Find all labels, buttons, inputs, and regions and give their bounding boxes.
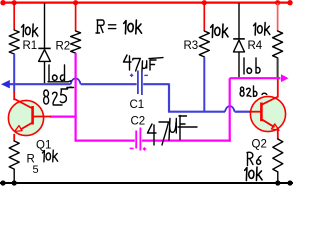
resistor R6 (Q2 emitter to ground) xyxy=(273,139,283,172)
wire: VCC top rail (red) xyxy=(2,1,291,3)
wire: red drop from rail to R3 xyxy=(203,3,205,31)
handwritten tilde mark above Q2 xyxy=(262,93,267,94)
wire: blue lead R1 bottom down through node to Q1 collector xyxy=(13,54,15,93)
svg-text:R2: R2 xyxy=(56,41,71,53)
handwritten value 10k beside R5 xyxy=(42,150,57,162)
node dot: ground left terminal xyxy=(0,180,5,185)
resistor R4 xyxy=(273,31,283,58)
handwritten value 10k beside R1 xyxy=(22,24,38,37)
handwritten diode label Lod (D1) xyxy=(48,65,74,88)
wire: red drop from rail to R1 xyxy=(13,3,15,30)
svg-text:R3: R3 xyxy=(184,40,199,52)
wire: ground rail (bottom, black) xyxy=(0,182,293,184)
svg-text:5: 5 xyxy=(33,164,39,176)
wire: blue horizontal net (Q1 collector node) with hop over magenta xyxy=(7,78,137,84)
handwritten label R6 xyxy=(247,152,261,165)
svg-text:C1: C1 xyxy=(130,99,145,111)
diode D2 (right, from rail to Q2 collector node) xyxy=(233,3,245,77)
resistor R5 (Q1 emitter to ground) xyxy=(9,141,19,169)
handwritten value 10k beside R4 xyxy=(254,23,270,36)
handwritten equation R = 10k xyxy=(96,20,142,34)
svg-text:Q2: Q2 xyxy=(252,139,267,151)
node dot: rail junction above R1 xyxy=(12,0,17,5)
wire: blue vertical corner down to Q2 base net xyxy=(168,83,170,111)
node dot: rail junction above R3 xyxy=(202,0,207,5)
node dot: top-right terminal xyxy=(287,0,292,5)
wire: black lead R4 bottom to output node xyxy=(277,58,279,77)
handwritten value 10k beside R6 xyxy=(245,167,262,180)
wire: R6 bottom lead xyxy=(277,172,279,183)
label R5 (R with subscript 5) xyxy=(27,154,39,177)
arrow: blue left-pointing probe arrow xyxy=(1,80,10,88)
resistor R2 xyxy=(71,31,81,53)
handwritten value 10k beside R3 xyxy=(211,24,228,37)
resistor R1 xyxy=(9,30,19,54)
wire: red Q2 collector lead from output node xyxy=(277,79,279,98)
node dot: ground right terminal xyxy=(287,180,292,185)
wire: magenta vertical R2 bottom down (Q1 base node) xyxy=(74,53,76,141)
node dot: ground junction R6 xyxy=(275,180,280,185)
transistor Q2 (NPN mirrored, red on green) xyxy=(249,96,286,139)
wire: blue from C1 right plate to corner xyxy=(143,83,169,85)
node dot: rail junction above R4 xyxy=(275,0,280,5)
wire: R5 bottom lead xyxy=(13,169,15,183)
handwritten number 82b near Q2 xyxy=(240,86,257,97)
handwritten number 825 near Q1 xyxy=(44,87,71,105)
transistor Q1 (NPN, red on green) xyxy=(8,92,51,142)
wire: blue lead R3 bottom to base net xyxy=(203,57,205,111)
resistor R3 xyxy=(199,31,209,57)
wire: red drop from rail to R4 xyxy=(277,3,279,31)
arrow: magenta right-pointing output arrow xyxy=(281,74,289,82)
svg-text:R1: R1 xyxy=(23,40,38,52)
diode D1 (left, from rail to Q1 collector node) xyxy=(38,3,50,83)
capacitor C1 (blue, polarized) xyxy=(130,71,148,96)
node dot: rail junction above R2 xyxy=(73,0,78,5)
capacitor C2 (magenta, polarized) xyxy=(130,128,147,151)
handwritten diode label Lob (D2) xyxy=(244,58,260,74)
wire: red drop from rail to R2 xyxy=(75,3,77,31)
wire: magenta from C2 right plate to right corner xyxy=(142,140,231,142)
svg-text:Q1: Q1 xyxy=(36,140,51,152)
wire: blue horizontal Q2 base net with hop over magenta xyxy=(168,106,250,112)
svg-text:C2: C2 xyxy=(131,116,146,128)
handwritten value 47uF for C2 xyxy=(148,116,198,146)
wire: magenta output line to the right xyxy=(230,77,281,79)
wire: magenta horizontal to C2 left plate xyxy=(75,140,135,142)
svg-text:R4: R4 xyxy=(248,40,263,52)
node dot: ground junction R5 xyxy=(12,180,17,185)
wire: magenta vertical up to output line xyxy=(229,78,231,142)
wire: magenta Q1 base lead horizontal xyxy=(50,115,77,117)
handwritten value 47uF for C1 xyxy=(124,55,164,71)
node dot: top-left terminal xyxy=(0,0,5,5)
